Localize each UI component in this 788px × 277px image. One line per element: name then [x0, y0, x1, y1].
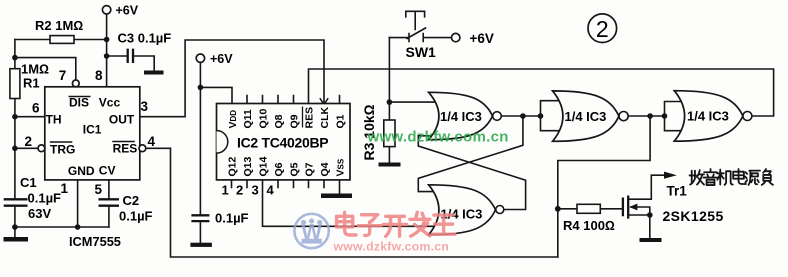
svg-text:C2: C2	[123, 193, 140, 208]
svg-text:1: 1	[222, 182, 229, 197]
svg-text:1/4 IC3: 1/4 IC3	[440, 109, 482, 124]
svg-text:www.dzkfw.com.cn: www.dzkfw.com.cn	[333, 240, 450, 254]
svg-text:+6V: +6V	[116, 3, 139, 17]
svg-text:2: 2	[236, 182, 243, 197]
svg-text:1/4 IC3: 1/4 IC3	[565, 109, 607, 124]
svg-text:RES: RES	[304, 107, 316, 129]
svg-text:Q6: Q6	[273, 162, 285, 176]
svg-text:C3 0.1µF: C3 0.1µF	[118, 31, 172, 46]
svg-text:www.dzkfw.com.cn: www.dzkfw.com.cn	[367, 129, 509, 146]
svg-text:4: 4	[267, 182, 275, 197]
svg-text:Q10: Q10	[258, 108, 270, 128]
svg-text:5: 5	[95, 182, 103, 197]
svg-text:3: 3	[252, 182, 259, 197]
svg-text:R4 100Ω: R4 100Ω	[563, 218, 615, 233]
svg-text:CLK: CLK	[319, 107, 331, 129]
svg-text:2: 2	[596, 16, 609, 42]
svg-text:ICM7555: ICM7555	[69, 234, 121, 249]
svg-text:4: 4	[148, 134, 156, 149]
svg-text:VSS: VSS	[335, 158, 347, 176]
svg-text:Q13: Q13	[242, 156, 254, 176]
svg-text:+6V: +6V	[210, 52, 233, 66]
svg-text:0.1µF: 0.1µF	[215, 211, 249, 226]
svg-text:1/4 IC3: 1/4 IC3	[687, 109, 729, 124]
svg-text:7: 7	[59, 68, 67, 83]
svg-text:1: 1	[61, 181, 69, 196]
svg-text:Q11: Q11	[242, 109, 254, 128]
svg-text:TH: TH	[46, 113, 62, 127]
svg-text:6: 6	[32, 101, 40, 116]
svg-text:GND: GND	[68, 164, 95, 178]
svg-text:RES: RES	[113, 142, 138, 156]
svg-text:Q9: Q9	[289, 114, 301, 128]
svg-text:Q8: Q8	[273, 114, 285, 128]
svg-text:Q7: Q7	[304, 162, 316, 176]
svg-text:Q4: Q4	[319, 162, 331, 176]
svg-text:Q1: Q1	[335, 114, 347, 128]
svg-text:2: 2	[25, 134, 33, 149]
svg-text:TRG: TRG	[50, 142, 75, 156]
svg-text:8: 8	[95, 68, 103, 83]
svg-text:0.1µF: 0.1µF	[119, 209, 153, 224]
svg-text:Tr1: Tr1	[667, 184, 688, 199]
svg-text:Q14: Q14	[258, 156, 270, 176]
svg-text:Vcc: Vcc	[99, 95, 121, 109]
svg-text:Q5: Q5	[289, 162, 301, 176]
svg-text:DIS: DIS	[69, 95, 89, 109]
svg-text:3: 3	[141, 99, 149, 114]
svg-text:IC1: IC1	[83, 122, 102, 136]
svg-text:0.1µF: 0.1µF	[28, 191, 62, 206]
svg-text:OUT: OUT	[109, 113, 135, 127]
svg-text:Q12: Q12	[227, 156, 239, 176]
svg-text:2SK1255: 2SK1255	[663, 208, 724, 224]
svg-text:IC2 TC4020BP: IC2 TC4020BP	[237, 135, 328, 151]
svg-text:SW1: SW1	[406, 44, 437, 60]
svg-text:C1: C1	[20, 175, 37, 190]
svg-text:1MΩ: 1MΩ	[21, 62, 49, 77]
svg-text:R2 1MΩ: R2 1MΩ	[35, 18, 83, 33]
svg-text:63V: 63V	[28, 206, 51, 221]
svg-text:+6V: +6V	[470, 31, 494, 46]
svg-text:VDD: VDD	[227, 110, 239, 129]
svg-text:CV: CV	[99, 163, 116, 177]
svg-text:R1: R1	[23, 76, 40, 91]
